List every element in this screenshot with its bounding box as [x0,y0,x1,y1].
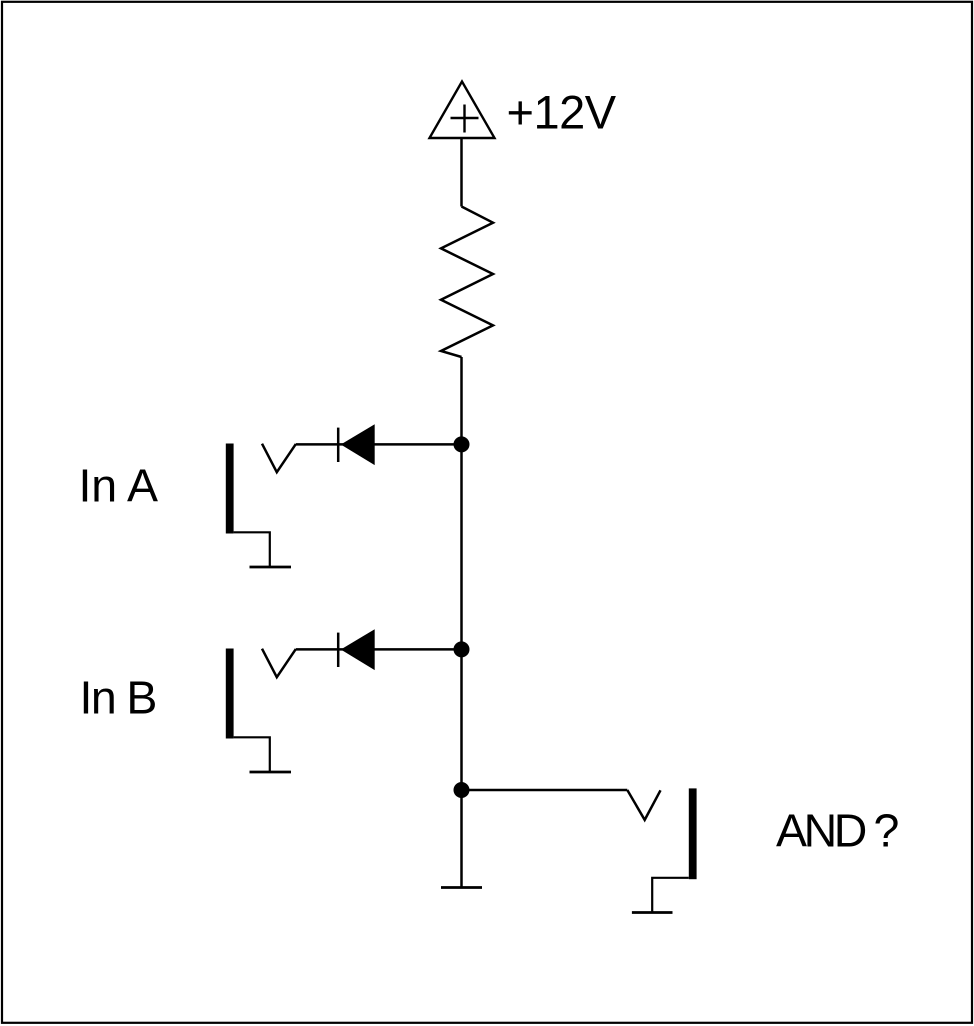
svg-text:AND ?: AND ? [776,805,898,857]
svg-text:+12V: +12V [507,86,617,139]
svg-text:In B: In B [80,672,156,724]
svg-text:In A: In A [79,460,159,512]
